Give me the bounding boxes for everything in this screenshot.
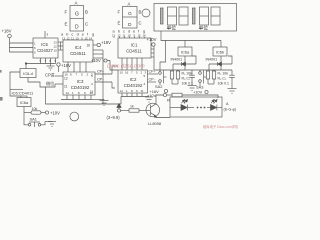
segment legend box 2 (above IC1) <box>123 7 138 29</box>
svg-text:维库电子 Dzsc.com详情: 维库电子 Dzsc.com详情 <box>203 124 239 129</box>
svg-text:10: 10 <box>54 49 58 53</box>
label (3~9.9) <box>107 115 121 120</box>
inter-counter wire <box>112 66 118 88</box>
svg-text:CD40192: CD40192 <box>124 83 143 88</box>
junction dot <box>25 63 27 65</box>
legend 2 label C <box>139 21 142 26</box>
legend 2 label A <box>128 2 131 7</box>
resistor R5 (vertical, left block) <box>170 71 173 84</box>
svg-text:14: 14 <box>66 91 70 95</box>
R labels (right block) <box>218 72 230 86</box>
svg-text:借位: 借位 <box>46 80 54 86</box>
IN4001 label (left) <box>171 58 183 62</box>
svg-text:IC6a: IC6a <box>20 100 29 105</box>
IC6a output wire <box>24 107 31 113</box>
IC6-d input wire <box>25 64 27 69</box>
legend 1 label D <box>75 25 79 31</box>
svg-text:R: R <box>167 98 170 103</box>
legend 1 label G <box>75 12 79 18</box>
svg-text:CD4511: CD4511 <box>70 51 86 56</box>
svg-text:IC2: IC2 <box>130 77 137 82</box>
IC1 CD4511 box <box>118 38 151 58</box>
digit 8 cell 2 <box>179 7 188 25</box>
IC3 bottom stubs <box>67 95 91 100</box>
label jie wei <box>46 80 54 86</box>
IC3 left pin 11 <box>55 84 68 89</box>
IC3 top wires from IC4 <box>68 62 86 72</box>
svg-text:G: G <box>75 12 79 18</box>
svg-text:E: E <box>65 22 68 27</box>
digit 8 cell 1 <box>168 7 177 25</box>
svg-text:F: F <box>118 10 121 15</box>
left trunk wire <box>10 72 21 96</box>
display module box <box>154 4 237 32</box>
wire IC1 pin16 to +10V <box>150 44 153 46</box>
transistor collector wire <box>156 95 163 104</box>
svg-text:+18V: +18V <box>61 63 71 68</box>
svg-text:单位: 单位 <box>199 25 209 32</box>
svg-text:F: F <box>65 10 68 15</box>
svg-text:SA1: SA1 <box>30 117 37 122</box>
svg-text:R₂ 10k: R₂ 10k <box>218 72 229 76</box>
svg-text:A: A <box>128 2 131 7</box>
svg-text:11: 11 <box>123 33 126 37</box>
IC2 top wires from IC1 <box>122 58 142 70</box>
legend 2 label E <box>118 21 121 26</box>
legend 1 label A <box>75 1 78 6</box>
svg-text:D: D <box>128 22 132 28</box>
IC3 CP+ stub <box>91 70 112 79</box>
svg-text:CP₋: CP₋ <box>97 78 104 82</box>
diode VD1 <box>173 62 196 66</box>
legend 1 label B <box>85 10 88 15</box>
svg-text:C: C <box>139 21 142 26</box>
wire to transistor base <box>139 110 150 112</box>
svg-text:IC6:CD4011: IC6:CD4011 <box>12 91 34 96</box>
IC2 CP+ stub <box>144 70 159 79</box>
svg-text:10: 10 <box>120 71 124 75</box>
svg-text:+10V: +10V <box>50 111 60 116</box>
IC5 CD4027 box <box>33 38 58 58</box>
IC3 bottom pin numbers <box>66 91 94 95</box>
svg-text:IC5: IC5 <box>41 42 48 47</box>
pin numbers above IC4 <box>62 36 93 40</box>
svg-text:CP₊: CP₊ <box>149 70 156 74</box>
R labels (left block) <box>182 72 194 86</box>
svg-text:G: G <box>128 11 132 17</box>
wire display box to gate rail <box>161 31 221 41</box>
svg-text:(E-G-φ): (E-G-φ) <box>224 108 237 112</box>
indicator circle between legends <box>142 9 150 17</box>
digit one bar (group 2) <box>193 8 196 24</box>
terminal +18V (right of IC4) <box>97 40 111 47</box>
IC5 to IC4 stubs <box>58 42 63 50</box>
transistor emitter wire <box>156 116 170 117</box>
terminal +18V (below SA2) <box>150 89 168 94</box>
IC2 bottom stubs <box>121 93 149 97</box>
diode loop wires (left block) <box>173 56 196 70</box>
svg-text:E: E <box>118 21 121 26</box>
scan speck left edge 1 <box>0 70 2 73</box>
legend 2 label D <box>128 22 132 28</box>
IC4 top pin stubs <box>65 39 88 41</box>
LED D2 <box>211 99 218 110</box>
group 2 label 单位 <box>199 25 209 32</box>
pushbutton SA3 <box>196 70 207 90</box>
svg-text:+18V: +18V <box>2 29 12 34</box>
wire rail drop to SA2 <box>160 41 166 71</box>
wire drop to IC6b gate <box>220 41 222 48</box>
legend 2 label G <box>128 11 132 17</box>
svg-text:CD4027: CD4027 <box>37 48 53 53</box>
gate IC6-d box <box>20 69 36 78</box>
svg-text:(3~9.9): (3~9.9) <box>107 115 121 120</box>
terminal input arrow <box>117 104 129 113</box>
svg-text:9: 9 <box>47 33 49 37</box>
bottom long wire <box>46 87 122 104</box>
LED module box <box>170 97 222 117</box>
segment legend box 1 (above IC4) <box>70 6 84 32</box>
svg-text:IN4001: IN4001 <box>206 58 218 62</box>
IC3 CD40192 box <box>63 72 95 95</box>
terminal +10V (center) <box>91 58 118 70</box>
svg-text:14: 14 <box>120 89 124 93</box>
svg-text:Dzsc.dzsc.com: Dzsc.dzsc.com <box>107 64 145 70</box>
digit 8 cell 4 <box>211 7 220 25</box>
transistor VT1 <box>146 103 160 117</box>
IC1 top pin stubs <box>114 37 145 38</box>
svg-text:CP₊: CP₊ <box>97 70 104 74</box>
gate IC6a box <box>178 47 192 56</box>
legend 1 label C <box>85 22 88 27</box>
svg-text:10k 0.1: 10k 0.1 <box>182 82 194 86</box>
svg-text:IC6b: IC6b <box>216 50 224 55</box>
label IC6:CD4011 <box>10 89 34 95</box>
segment letters a-g above IC4 <box>61 33 94 37</box>
terminal +10V (bottom left) <box>45 111 60 116</box>
IC6a input stubs <box>21 96 27 98</box>
dots <box>197 107 206 109</box>
svg-text:R₄ C₂: R₄ C₂ <box>218 77 227 81</box>
pushbutton SA1 <box>24 113 45 128</box>
svg-text:CD40192: CD40192 <box>71 85 90 90</box>
svg-text:IC6a: IC6a <box>181 50 190 55</box>
svg-text:+10V: +10V <box>147 37 157 42</box>
red watermark (center) <box>107 64 145 70</box>
segment letters above IC1 <box>113 30 146 34</box>
svg-text:16: 16 <box>125 71 129 75</box>
legend 1 label E <box>65 22 68 27</box>
ground (right of SA1) <box>45 122 56 127</box>
IC2 bottom pin numbers <box>120 89 144 93</box>
wire +18V to IC5 pins <box>10 38 34 52</box>
terminal +10V (below SA3) <box>193 90 208 95</box>
terminal +18V (far left) <box>2 29 12 38</box>
IC5 top pin wire <box>45 31 49 38</box>
resistor 10k (bottom left) <box>31 107 41 114</box>
wire drop to IC6a gate <box>184 41 186 48</box>
resistor R8 (vertical, right block) <box>208 70 216 84</box>
IC5 bottom pin numbers <box>40 59 57 63</box>
svg-text:16: 16 <box>87 44 91 48</box>
ground (below C2) <box>228 81 237 94</box>
svg-text:10k 0.1: 10k 0.1 <box>218 82 230 86</box>
digit 8 cell 3 <box>200 7 209 25</box>
terminal +18V (center) <box>57 63 71 68</box>
svg-text:D: D <box>75 25 79 31</box>
resistor R (LED feed) <box>167 93 182 102</box>
svg-text:C: C <box>85 22 88 27</box>
digit one bar (group 1) <box>161 8 164 24</box>
IC2 CP- stub <box>144 78 157 87</box>
svg-text:IC4: IC4 <box>75 45 82 50</box>
terminal +10V (right of IC1) <box>147 37 157 46</box>
ground (below IC2 right) <box>145 97 153 102</box>
ground (below IC5) <box>47 64 55 71</box>
svg-text:IC6-d: IC6-d <box>23 71 33 76</box>
LED chain wire <box>170 107 222 109</box>
svg-text:+18V: +18V <box>101 40 111 45</box>
label A (E-G-phi) <box>224 102 237 112</box>
pushbutton SA2 <box>155 70 167 89</box>
debounce rail wire <box>154 69 232 71</box>
svg-text:CP进: CP进 <box>45 72 55 78</box>
legend 2 label B <box>139 10 142 15</box>
IC2 CD40192 box <box>118 70 148 93</box>
scan speck left edge 2 <box>0 97 3 101</box>
IC3 CP- stub <box>90 78 112 94</box>
gate IC6a box (bottom left) <box>17 98 31 107</box>
IC5 bottom pin stubs <box>41 58 56 64</box>
svg-text:CP₋: CP₋ <box>149 78 156 82</box>
ground (bottom center) <box>91 100 109 106</box>
circle terminal (bottom middle-left) <box>70 112 79 121</box>
IC4 right stubs to bus <box>93 50 103 104</box>
label LL8098 <box>148 121 161 126</box>
capacitor C2 (right block) <box>229 70 235 81</box>
IC3 bottom bus <box>61 99 91 101</box>
IC3 top pin numbers <box>65 73 94 77</box>
svg-text:A: A <box>75 1 78 6</box>
IC5 right pin numbers <box>54 41 58 53</box>
resistor 1k <box>129 105 139 113</box>
svg-text:单位: 单位 <box>167 25 177 32</box>
legend 1 label F <box>65 10 68 15</box>
svg-text:IC1: IC1 <box>131 43 138 48</box>
svg-text:IC3: IC3 <box>77 79 84 84</box>
svg-text:11: 11 <box>64 85 68 89</box>
wire +10V through resistor R <box>167 94 172 96</box>
red watermark (bottom right) <box>203 124 239 129</box>
wire resistor to +10V <box>41 112 46 114</box>
wire resistor to LED box <box>182 95 218 98</box>
svg-text:11: 11 <box>141 89 144 93</box>
legend 2 label F <box>118 10 121 15</box>
svg-text:10: 10 <box>90 91 94 95</box>
diode loop wires (right block) <box>209 56 232 70</box>
svg-text:CD4511: CD4511 <box>126 49 142 54</box>
IC3 left pin 12 <box>55 76 68 81</box>
IC1 right stubs to bus <box>151 47 154 71</box>
IC5 left pin numbers <box>34 42 36 55</box>
pin numbers above IC1 <box>112 33 146 37</box>
group 1 label 单位 <box>167 25 177 32</box>
gate IC6b box <box>213 47 227 56</box>
svg-text:B: B <box>139 10 142 15</box>
svg-text:LL8098: LL8098 <box>148 121 161 126</box>
IN4001 label (right) <box>206 58 218 62</box>
IC2 top pin numbers <box>120 71 147 75</box>
terminal +10V (below SA2) <box>147 93 167 98</box>
capacitor C1 (left block) <box>188 70 197 91</box>
label CP jin <box>45 72 55 78</box>
svg-text:g: g <box>92 33 94 37</box>
svg-text:B: B <box>85 10 88 15</box>
svg-text:10k: 10k <box>32 107 38 111</box>
IC4 CD4511 box <box>63 40 93 62</box>
bottom bus wire <box>26 63 56 65</box>
resistor R7 (vertical, left block) <box>172 70 180 84</box>
IC6-d output wire <box>28 78 55 88</box>
svg-text:1k: 1k <box>130 105 134 109</box>
svg-text:IN4001: IN4001 <box>171 58 183 62</box>
LED D1 <box>181 99 188 110</box>
wire +18V center to IC3 <box>58 66 60 72</box>
resistor R6 (vertical, right block) <box>206 71 209 84</box>
wire IC4 pin16 to +18V <box>87 44 98 48</box>
svg-text:12: 12 <box>64 77 68 81</box>
diode VD2 <box>209 62 232 66</box>
svg-text:+10V: +10V <box>193 90 203 95</box>
svg-text:+10V: +10V <box>91 58 101 63</box>
